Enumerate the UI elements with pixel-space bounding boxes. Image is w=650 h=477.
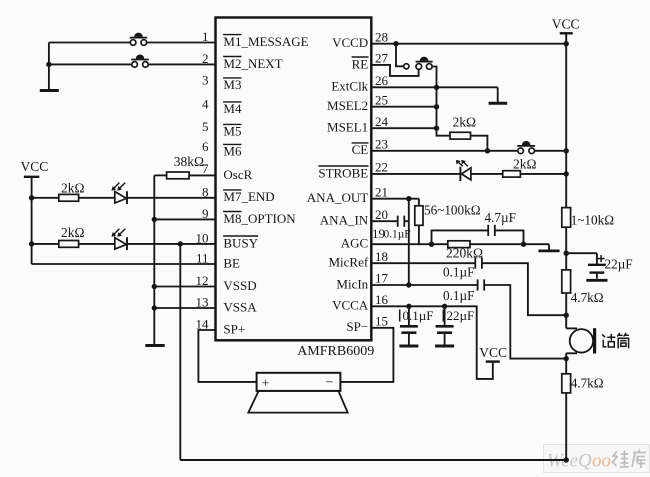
svg-text:VCCD: VCCD xyxy=(332,35,368,50)
svg-text:M1_MESSAGE: M1_MESSAGE xyxy=(223,34,308,49)
wire S3 right contact down rail to R4 xyxy=(432,67,450,136)
junction pin2 / ground node xyxy=(46,62,51,67)
pin 9 label M8_OPTION xyxy=(202,206,296,226)
svg-text:220kΩ: 220kΩ xyxy=(446,246,483,261)
pin 12 label VSSD xyxy=(196,273,257,293)
pin 26 label ExtClk xyxy=(331,73,388,94)
svg-text:2kΩ: 2kΩ xyxy=(513,156,537,171)
microphone MK1 xyxy=(566,328,594,353)
svg-text:21: 21 xyxy=(375,184,388,199)
svg-text:M7_END: M7_END xyxy=(223,189,274,204)
VCC terminal top right xyxy=(552,17,580,34)
resistor R7 220k xyxy=(446,241,483,261)
svg-text:VCC: VCC xyxy=(21,159,49,174)
svg-text:VCCA: VCCA xyxy=(332,298,369,313)
svg-text:AGC: AGC xyxy=(341,236,368,251)
ground G2 xyxy=(145,344,164,347)
svg-text:4.7kΩ: 4.7kΩ xyxy=(571,290,604,305)
capacitor C7 22uF with plus xyxy=(566,253,632,278)
wire pin14 SP+ to speaker xyxy=(198,330,256,382)
svg-text:22: 22 xyxy=(375,160,388,175)
svg-text:26: 26 xyxy=(375,73,389,88)
pin 15 label SP&#8722; xyxy=(346,314,388,335)
junction VCCA at C5 xyxy=(406,304,411,309)
junction STROBE at VCC rail xyxy=(564,171,569,176)
resistor R4 2k xyxy=(450,115,476,140)
svg-text:BUSY: BUSY xyxy=(223,235,258,250)
pin 24 label MSEL1 xyxy=(327,114,388,135)
junction ExtClk rail xyxy=(434,85,439,90)
wire pin24 MSEL1 xyxy=(371,127,436,129)
svg-text:VCC: VCC xyxy=(552,17,580,32)
junction rail pin9 xyxy=(152,217,157,222)
pin 23 label CE xyxy=(352,137,388,158)
wire pin19 AGC xyxy=(371,244,549,249)
pushbutton S3 with extra contact xyxy=(404,57,433,70)
svg-text:25: 25 xyxy=(375,92,388,107)
junction VCC rail top xyxy=(564,41,569,46)
wire mic bottom to R10 xyxy=(565,353,567,374)
svg-text:18: 18 xyxy=(375,249,388,264)
pin 5 label M5 xyxy=(202,119,241,139)
svg-text:56~100kΩ: 56~100kΩ xyxy=(424,202,481,217)
junction MicIn at mic node xyxy=(564,356,569,361)
capacitor C4 0.1uF on MicIn xyxy=(443,279,484,302)
svg-text:SP+: SP+ xyxy=(223,321,245,336)
capacitor C1 0.1uF on ANA_IN xyxy=(384,216,411,241)
svg-text:M3: M3 xyxy=(223,77,241,92)
junction AGC right node xyxy=(521,242,526,247)
wire VCC rail left feeding R1 R2 and pin11 BE xyxy=(32,178,216,265)
wire VCCD drop to S3 left contact xyxy=(396,44,404,67)
junction VCCA at C6 xyxy=(442,304,447,309)
pin 10 label BUSY xyxy=(196,231,259,251)
wire pin1 M1_MESSAGE to pushbutton S1 and down to pin2 node xyxy=(49,43,216,65)
svg-text:oo: oo xyxy=(592,451,611,472)
wire pin17 MicIn through C4 to mic node xyxy=(371,285,566,359)
svg-text:1~10kΩ: 1~10kΩ xyxy=(571,213,615,228)
pin 20 label ANA_IN xyxy=(320,207,388,228)
pin 16 label VCCA xyxy=(332,292,388,313)
svg-text:M2_NEXT: M2_NEXT xyxy=(223,56,282,71)
svg-text:−: − xyxy=(326,375,334,390)
tick marks by C5 C6 labels xyxy=(400,310,444,322)
wire R1 to D1 to pin8 xyxy=(79,197,216,199)
resistor R3 38k on OscR xyxy=(167,154,204,179)
svg-text:VCC: VCC xyxy=(479,345,507,360)
svg-text:17: 17 xyxy=(375,271,389,286)
svg-text:4: 4 xyxy=(202,96,209,111)
svg-text:16: 16 xyxy=(375,292,389,307)
label microphone 话筒 xyxy=(603,333,629,347)
wire VCC rail upper xyxy=(565,33,567,207)
junction AGC left node xyxy=(429,242,434,247)
pin 4 label M4 xyxy=(202,96,242,116)
svg-text:0.1µF: 0.1µF xyxy=(443,265,474,280)
pin 17 label MicIn xyxy=(336,271,388,292)
VCC terminal at VCCA xyxy=(479,345,507,362)
junction ANA_OUT feedback node xyxy=(406,196,411,201)
junction VCCD branch to S3 xyxy=(393,41,398,46)
svg-text:24: 24 xyxy=(375,114,389,129)
svg-text:M6: M6 xyxy=(223,144,242,159)
svg-text:6: 6 xyxy=(202,139,209,154)
pin 3 label M3 xyxy=(202,72,241,92)
pin 7 label OscR xyxy=(202,161,253,182)
wire pin28 VCCD to VCC rail xyxy=(371,43,566,45)
svg-text:38kΩ: 38kΩ xyxy=(174,154,204,169)
svg-text:2kΩ: 2kΩ xyxy=(453,115,477,130)
svg-text:27: 27 xyxy=(375,51,389,66)
LED D3 on STROBE xyxy=(456,160,471,181)
pin 19 label AGC xyxy=(341,226,385,251)
wire pin27 RE under-route to S3 middle contact xyxy=(371,65,418,76)
wire pin2 M2_NEXT xyxy=(49,63,216,65)
svg-text:23: 23 xyxy=(375,137,388,152)
wire R4 to pin23 node xyxy=(471,136,488,151)
wire OscR pin7 xyxy=(154,174,215,176)
VCC terminal left xyxy=(21,159,49,178)
wire pin18 MicRef through C3 to divider xyxy=(371,263,566,315)
wire pin20 ANA_IN through C1 to feedback xyxy=(371,220,409,222)
wire pin25 MSEL2 xyxy=(371,106,436,108)
svg-text:MicIn: MicIn xyxy=(336,276,368,291)
svg-text:MSEL2: MSEL2 xyxy=(327,98,368,113)
resistor R2 2k xyxy=(32,225,85,248)
wire rail from R3 to ground with pins 9 12 13 xyxy=(154,175,215,344)
svg-text:4.7µF: 4.7µF xyxy=(485,210,516,225)
capacitor C5 0.1uF bypass xyxy=(400,306,434,344)
LED D2 xyxy=(111,229,127,250)
svg-text:5: 5 xyxy=(202,119,209,134)
pushbutton S2 xyxy=(131,54,149,67)
pushbutton S1 xyxy=(130,33,148,46)
pin 11 label BE xyxy=(196,251,240,271)
ground G6 xyxy=(435,345,454,348)
wire BUSY pin10 down and along bottom to mic divider xyxy=(180,244,566,460)
svg-text:+: + xyxy=(262,376,270,391)
svg-text:SP−: SP− xyxy=(346,319,368,334)
wire R2 to D2 to pin10 xyxy=(79,243,216,245)
junction pin23 node xyxy=(485,148,490,153)
ground G3 on ExtClk xyxy=(489,87,508,103)
pin 13 label VSSA xyxy=(196,295,258,315)
wire R10 to bottom wire xyxy=(565,393,567,460)
pushbutton S4 xyxy=(517,141,535,154)
wire pin21 ANA_OUT xyxy=(371,199,419,206)
svg-text:3: 3 xyxy=(202,72,209,87)
junction rail pin13 xyxy=(152,305,157,310)
svg-text:VSSD: VSSD xyxy=(223,278,256,293)
svg-text:MSEL1: MSEL1 xyxy=(327,120,368,135)
svg-text:VSSA: VSSA xyxy=(223,299,257,314)
svg-text:M4: M4 xyxy=(223,101,242,116)
capacitor C3 0.1uF on MicRef xyxy=(443,258,482,280)
svg-text:0.1µF: 0.1µF xyxy=(384,229,411,241)
junction VCC rail at pin10 branch xyxy=(29,241,34,246)
svg-text:22µF: 22µF xyxy=(605,256,633,271)
wire pin15 SP- to speaker xyxy=(340,328,393,382)
svg-text:CE: CE xyxy=(352,142,369,157)
junction CE at VCC rail xyxy=(564,148,569,153)
svg-text:0.1µF: 0.1µF xyxy=(443,288,474,303)
svg-text:ANA_OUT: ANA_OUT xyxy=(307,190,368,205)
svg-text:ExtClk: ExtClk xyxy=(331,79,368,94)
svg-text:OscR: OscR xyxy=(223,167,252,182)
junction rail pin12 xyxy=(152,284,157,289)
wire pin16 VCCA to VCC stub xyxy=(371,306,493,379)
wire ANA_OUT to MicIn feedback vertical xyxy=(408,199,410,285)
pin 6 label M6 xyxy=(202,139,242,159)
ground G5 xyxy=(399,345,418,348)
svg-text:M8_OPTION: M8_OPTION xyxy=(223,211,296,226)
svg-text:28: 28 xyxy=(375,29,388,44)
speaker LS1 xyxy=(248,373,347,413)
svg-text:2kΩ: 2kΩ xyxy=(61,225,85,240)
wire pin22 STROBE through D3 and R5 to VCC rail xyxy=(371,173,566,175)
pin 8 label M7_END xyxy=(202,184,275,204)
wire rail R9 to mic xyxy=(565,293,567,328)
ground G4 on AGC network xyxy=(538,249,559,252)
resistor R10 4.7k lower xyxy=(562,374,604,393)
pin 28 label VCCD xyxy=(332,29,388,50)
watermark WeeQoo xyxy=(544,445,650,473)
pin 2 label M2_NEXT xyxy=(202,51,283,71)
junction MicIn feedback node xyxy=(406,282,411,287)
ground G7 xyxy=(586,279,607,282)
pin 21 label ANA_OUT xyxy=(307,184,388,205)
resistor R5 2k xyxy=(503,156,537,177)
junction bottom wire to mic divider rail xyxy=(564,457,569,462)
svg-text:MicRef: MicRef xyxy=(328,255,368,270)
resistor R1 2k xyxy=(32,180,85,201)
pin 14 label SP+ xyxy=(196,317,246,337)
svg-text:2kΩ: 2kΩ xyxy=(61,180,85,195)
svg-text:15: 15 xyxy=(375,314,388,329)
wire rail R8 to R9 xyxy=(565,227,567,270)
pin 1 label M1_MESSAGE xyxy=(202,29,309,49)
pin 18 label MicRef xyxy=(328,249,388,270)
ground G1 xyxy=(40,64,59,90)
svg-text:RE: RE xyxy=(352,56,369,71)
resistor R8 1-10k xyxy=(562,208,614,228)
wire R6 bottom to AGC line xyxy=(418,225,420,244)
svg-text:STROBE: STROBE xyxy=(318,165,368,180)
svg-text:4.7kΩ: 4.7kΩ xyxy=(571,376,604,391)
junction MSEL2 rail xyxy=(434,104,439,109)
svg-text:0.1µF: 0.1µF xyxy=(403,308,434,323)
pin 27 label RE xyxy=(352,51,389,72)
junction BUSY node pin10 xyxy=(178,241,183,246)
svg-text:M5: M5 xyxy=(223,124,241,139)
svg-text:BE: BE xyxy=(223,255,240,270)
junction 22uF branch xyxy=(564,251,569,256)
resistor R9 4.7k upper xyxy=(562,270,604,305)
LED D1 xyxy=(111,183,127,204)
junction MicRef at divider xyxy=(564,313,569,318)
capacitor C2 4.7uF parallel loop xyxy=(432,210,524,244)
wire pin26 ExtClk xyxy=(371,86,497,88)
junction VCC rail at pin8 branch xyxy=(29,195,34,200)
capacitor C6 22uF bypass xyxy=(436,306,475,344)
wire pin23 CE to pushbutton S4 xyxy=(371,150,566,152)
pin 25 label MSEL2 xyxy=(327,92,388,113)
svg-text:22µF: 22µF xyxy=(447,308,475,323)
junction MSEL1 rail xyxy=(434,126,439,131)
svg-text:AMFRB6009: AMFRB6009 xyxy=(297,344,374,359)
resistor R6 56-100k xyxy=(415,202,481,225)
op-amp U1 AMFRB6009 chip body xyxy=(216,18,375,359)
svg-text:ANA_IN: ANA_IN xyxy=(320,213,369,228)
pin 22 label STROBE xyxy=(318,160,388,181)
svg-text:20: 20 xyxy=(375,207,388,222)
